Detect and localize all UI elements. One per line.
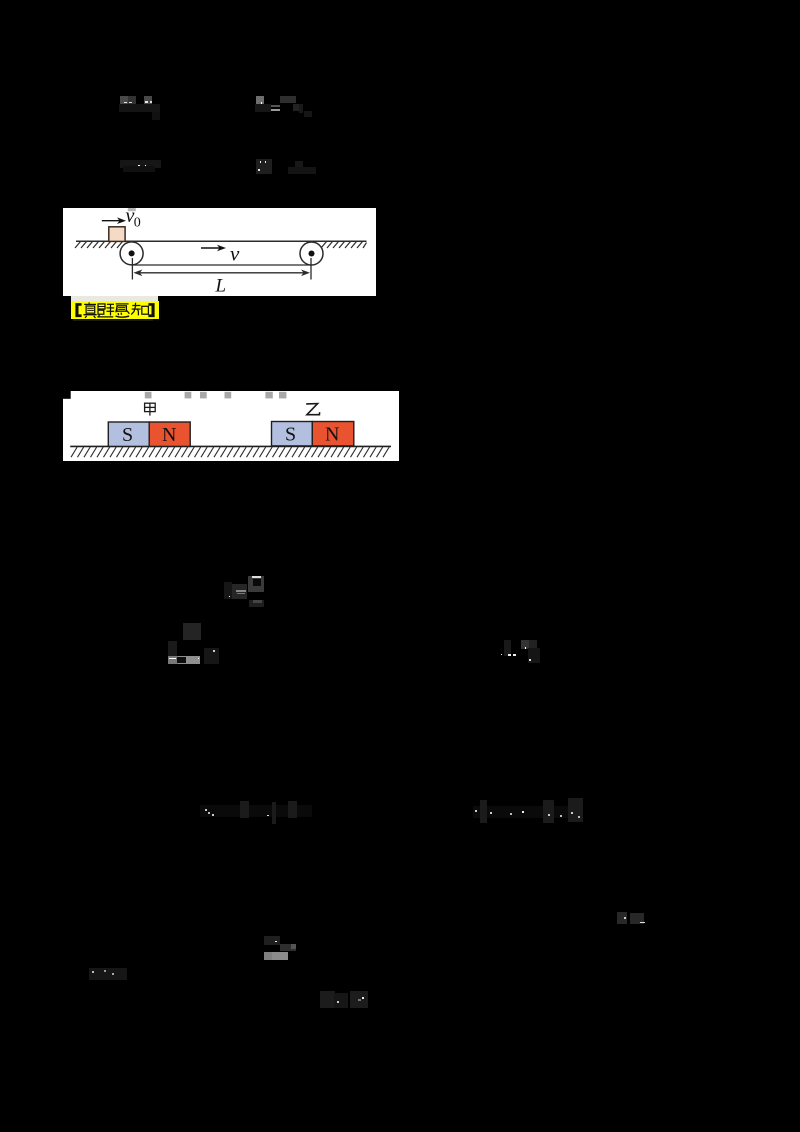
svg-text:0: 0 [134, 215, 141, 230]
svg-text:L: L [215, 275, 227, 296]
svg-text:S: S [285, 424, 296, 446]
svg-text:v: v [230, 241, 240, 265]
svg-text:N: N [325, 424, 339, 446]
svg-text:S: S [122, 424, 133, 446]
svg-text:N: N [162, 424, 176, 446]
